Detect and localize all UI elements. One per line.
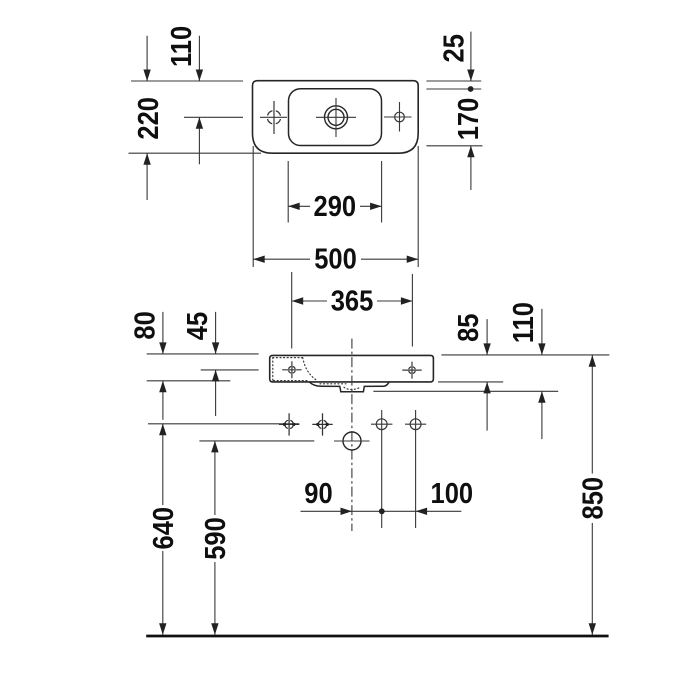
extension lines left of front view: [147, 354, 259, 381]
dimension line 500: [253, 258, 418, 260]
washbasin outline (plan): [253, 81, 419, 154]
svg-text:290: 290: [314, 189, 357, 222]
extension line bottom edge (plan left): [129, 152, 262, 154]
wall fixing symbol B: [312, 413, 332, 435]
faucet hole inner circle: [328, 109, 344, 125]
hidden contour dotted (front left): [273, 358, 318, 382]
svg-text:220: 220: [132, 97, 165, 140]
svg-text:80: 80: [128, 311, 161, 339]
svg-text:45: 45: [180, 312, 213, 340]
dimension 85: [486, 319, 488, 431]
dimension 110 legs (plan): [198, 36, 200, 165]
hidden basin bottom dotted: [320, 383, 346, 385]
dimension 45: [215, 312, 217, 416]
svg-text:365: 365: [331, 284, 374, 317]
basin inner rim (plan): [289, 89, 382, 146]
supply hole D: [410, 419, 421, 430]
washbasin front outline: [270, 355, 434, 382]
faucet hole outer circle: [325, 106, 348, 129]
svg-text:110: 110: [506, 302, 539, 343]
svg-text:85: 85: [452, 314, 485, 342]
vertical extension lines below plan: [253, 146, 418, 267]
supply hole C: [376, 419, 387, 430]
dimension 850: [591, 355, 593, 635]
right fixing hole (plan): [395, 112, 405, 122]
extension lines right of front view: [373, 355, 609, 391]
extension line fixing holes level: [148, 423, 299, 425]
drain hidden dots: [344, 387, 360, 389]
dimension 640: [162, 424, 164, 635]
extension lines right of plan: [426, 81, 482, 146]
drain outlet circle: [343, 432, 361, 450]
svg-text:100: 100: [431, 477, 474, 510]
extension line top edge (plan left): [131, 80, 243, 82]
floor line: [146, 635, 608, 638]
dimension line 365: [292, 300, 413, 302]
dimension 170 lower leg: [470, 146, 472, 190]
svg-text:500: 500: [314, 242, 357, 275]
fixing cross right (front): [409, 367, 416, 374]
svg-text:640: 640: [147, 507, 180, 550]
svg-text:170: 170: [451, 98, 484, 141]
dimension 25 leg + dot: [470, 32, 472, 81]
svg-text:25: 25: [437, 34, 470, 62]
fixing cross left (front): [289, 366, 296, 373]
svg-text:850: 850: [576, 477, 609, 520]
dimension line 90 / 100: [301, 510, 462, 512]
extension line centre (plan left): [184, 116, 243, 118]
svg-text:90: 90: [304, 477, 332, 510]
dimension 110 (front): [541, 309, 543, 439]
basin underside with drain stub (front): [309, 382, 389, 392]
extension lines for 365: [292, 272, 413, 349]
faucet crosshair: [316, 98, 356, 137]
dimension line 290: [288, 205, 381, 207]
svg-text:110: 110: [164, 26, 197, 67]
left overflow cross symbol: [267, 111, 280, 124]
extension line drain level: [199, 440, 314, 442]
wall fixing symbol A: [279, 413, 299, 435]
dimension 220 legs (plan): [146, 36, 148, 200]
svg-text:590: 590: [198, 517, 231, 560]
dimension 590: [214, 441, 216, 635]
dimension 80: [162, 312, 164, 420]
centre line (front): [351, 339, 353, 531]
